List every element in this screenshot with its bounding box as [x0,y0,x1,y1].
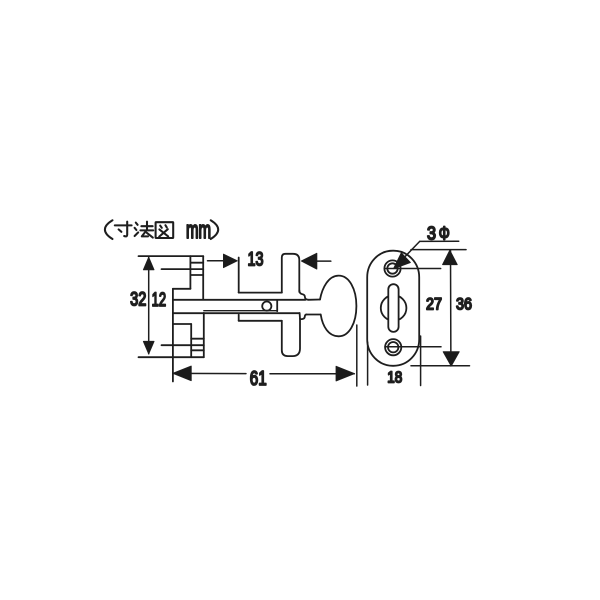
bracket upper hatch 3 [190,274,203,276]
dim 61 right extension line [356,325,358,386]
dim 13 left arrow tail [208,260,224,262]
bracket upper-right edge [202,256,204,300]
bracket lower hatch 1 [191,338,204,340]
bracket upper-left edge [189,256,191,289]
bottom screw slot + 27-dim bottom extension [385,346,441,348]
plate upper shoulder bump [299,290,308,300]
bracket left foot / 61-dim left extension [172,289,174,382]
dim 32 down arrow [143,341,154,353]
top screw hole inner [387,263,397,273]
bolt end joint line [276,300,278,311]
3-phi leader underline [420,240,459,242]
kanji SUN [115,222,132,237]
svg-text:27: 27 [426,294,442,313]
bottom screw hole inner [388,342,398,352]
dim 13 right-pointing arrow [224,254,238,267]
top screw hole outer [384,260,400,276]
dim 36 top extension [411,249,466,251]
dim 32/12 line [148,257,150,354]
dim 61 right-pointing arrow [336,366,354,381]
svg-text:32: 32 [130,290,146,311]
bolt bar top edge [173,299,306,301]
plate lower shoulder bump [300,315,307,320]
dim 36 down arrow [443,352,459,366]
dim 61 left-pointing arrow [173,366,191,381]
spindle top edge [308,299,320,301]
knob (side view) [320,276,356,337]
svg-text:mm: mm [186,217,211,244]
upper collar vertical + 13-dim extension [238,258,240,293]
spindle bottom edge [306,314,321,316]
svg-text:18: 18 [387,370,402,387]
svg-text:13: 13 [248,250,264,271]
upper collar shelf [239,292,282,294]
svg-text:Φ: Φ [439,223,450,243]
svg-text:36: 36 [456,294,472,313]
slide plate lower part (edge view) [282,319,300,356]
lower collar vertical [238,315,240,321]
kanji ZU [156,222,174,238]
dim 61 line left part [173,372,246,374]
dim 32 up arrow [143,257,154,270]
bracket lower step [173,323,191,325]
bracket lower-right edge [203,313,205,357]
bolt inner bottom edge [204,310,277,312]
oval mounting plate [367,251,419,366]
dim 61 line right part [270,373,354,375]
dim 36 up arrow [443,250,458,264]
dim 36/27 line [450,250,452,366]
bracket bottom edge + 32-dim bottom extension [139,356,204,358]
bracket lower hatch 2 + 12-dim extension [162,344,204,346]
svg-text:3: 3 [427,223,436,243]
bolt bar bottom edge [173,312,300,314]
dim 13 left-pointing arrow [302,253,317,269]
pin circle [262,302,271,311]
knob circle (front view) [381,295,407,321]
bracket upper step [173,288,191,290]
paren left [105,220,113,239]
paren right [211,220,219,239]
svg-text:61: 61 [250,368,267,390]
bracket upper hatch 2 + 12-dim extension [162,268,204,270]
bracket lower hatch 3 [191,349,204,351]
3-phi leader arrow [394,253,411,269]
3-phi leader diagonal [398,241,420,264]
centre slot [388,284,398,332]
bracket top edge + 32-dim top extension line [139,255,204,257]
slide plate upper part (edge view) [282,254,300,293]
bar end step to bump [299,313,301,319]
dim 18 left extension [367,342,369,385]
top screw slot + 27-dim top extension [384,268,440,270]
title text (寸法図 mm) [105,217,218,244]
dim 18 right extension [420,336,422,386]
bottom screw hole outer [385,339,401,355]
lower collar shelf [239,320,282,322]
bracket upper hatch 1 [190,262,203,264]
bracket lower-left edge [190,324,192,357]
dim 36 bottom extension [411,365,470,367]
kanji HOU [135,222,154,238]
dim 13 right arrow tail [317,260,331,262]
svg-text:12: 12 [152,290,167,311]
